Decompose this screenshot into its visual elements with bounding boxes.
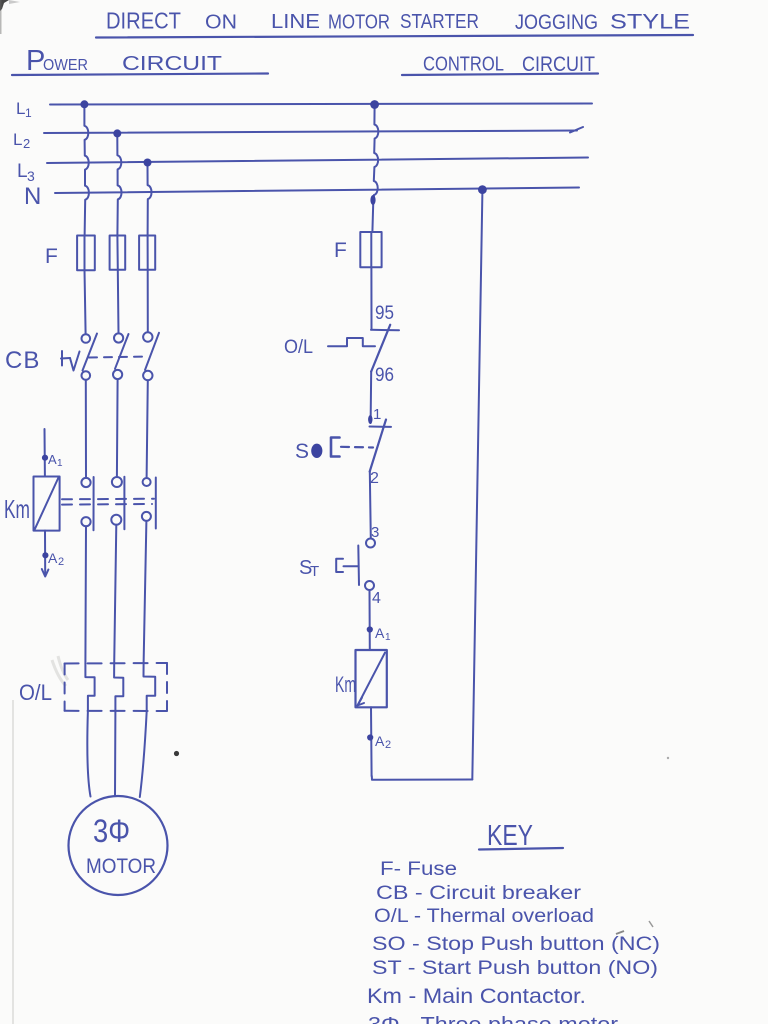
svg-text:A: A [375,733,385,749]
svg-text:2: 2 [370,470,379,487]
svg-text:O/L: O/L [284,337,313,358]
svg-text:F: F [45,245,58,268]
svg-text:CB - Circuit breaker: CB - Circuit breaker [376,883,582,904]
svg-text:STARTER: STARTER [400,11,479,33]
svg-text:ST - Start Push button (NO): ST - Start Push button (NO) [372,958,658,979]
svg-text:MOTOR: MOTOR [86,855,156,878]
svg-text:3Φ: 3Φ [93,813,130,849]
svg-text:O/L - Thermal overload: O/L - Thermal overload [374,906,594,927]
svg-text:2: 2 [385,739,391,751]
svg-text:1: 1 [385,632,391,643]
svg-text:3: 3 [371,524,379,541]
svg-text:ON: ON [205,12,237,34]
svg-text:L: L [13,130,22,149]
svg-text:A: A [48,550,58,566]
svg-text:OWER: OWER [43,57,88,74]
svg-text:A: A [48,452,57,467]
svg-text:95: 95 [375,303,394,324]
svg-text:3Φ - Three phase motor: 3Φ - Three phase motor [368,1014,618,1024]
svg-text:CONTROL: CONTROL [423,54,504,76]
svg-text:F- Fuse: F- Fuse [380,859,457,880]
svg-text:KEY: KEY [487,820,533,852]
svg-text:Km - Main Contactor.: Km - Main Contactor. [367,985,586,1008]
svg-text:96: 96 [375,365,394,386]
svg-text:MOTOR: MOTOR [328,12,390,34]
svg-text:F: F [334,239,347,262]
svg-text:T: T [310,563,319,580]
svg-text:1: 1 [57,458,63,469]
svg-text:STYLE: STYLE [610,11,690,34]
svg-text:SO - Stop Push button (NC): SO - Stop Push button (NC) [372,933,660,955]
svg-text:CB: CB [5,347,40,374]
svg-text:L: L [17,161,28,182]
svg-text:3: 3 [27,168,35,184]
svg-text:2: 2 [58,556,64,568]
svg-text:O/L: O/L [19,680,52,705]
svg-text:4: 4 [372,590,381,607]
svg-text:JOGGING: JOGGING [515,11,598,34]
svg-text:DIRECT: DIRECT [106,8,181,34]
svg-text:LINE: LINE [271,11,320,33]
svg-text:1: 1 [25,106,32,120]
svg-text:1: 1 [373,406,381,423]
svg-text:A: A [375,625,385,641]
svg-text:S: S [295,440,309,463]
svg-text:CIRCUIT: CIRCUIT [122,53,222,75]
svg-text:2: 2 [23,136,30,151]
svg-text:N: N [24,183,41,210]
svg-text:Km: Km [4,494,30,524]
svg-text:Km: Km [335,672,356,697]
